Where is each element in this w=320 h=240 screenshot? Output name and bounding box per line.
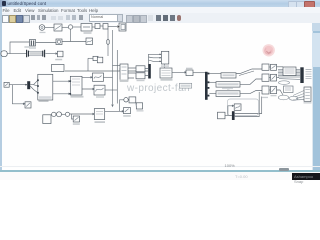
vertical wire from gain2 with goto tag	[107, 29, 109, 56]
fan wires blob to subsystem inputs	[30, 80, 38, 93]
selector block 48	[162, 51, 169, 64]
wires demux29 to gains	[128, 68, 136, 78]
minimize button	[288, 1, 297, 8]
wire col1 to col2 row2	[269, 77, 271, 79]
wire block32 to gain36	[172, 71, 186, 73]
branch to small rect A	[72, 114, 74, 119]
wire circle block to scope1	[62, 41, 86, 43]
wire controller to gain1	[92, 26, 95, 28]
vertical from mini cluster down	[87, 58, 89, 71]
transport delay two-bar block	[30, 40, 36, 47]
mux block top	[108, 23, 126, 31]
wire subsystem out1 to machine block	[53, 80, 71, 82]
wire subsystem out2 to machine block	[53, 93, 71, 95]
right col1 block1	[262, 64, 269, 70]
small terminator block lower left	[25, 102, 31, 108]
pipe label	[24, 46, 29, 47]
label under stacked gains	[137, 80, 145, 81]
wire gain1 to gain2	[100, 25, 103, 27]
wire plain rect to small bus bar	[225, 114, 232, 116]
label under right scope	[304, 102, 312, 103]
measurement block 32	[160, 68, 172, 78]
left window border	[0, 7, 2, 177]
wire machine to scope26	[82, 88, 94, 90]
vertical wire from demux bottom	[116, 50, 118, 104]
bottom rect B	[129, 97, 136, 103]
wire col2 row1 to ribbon	[277, 66, 284, 68]
wire A out up to col1 block1	[236, 69, 262, 74]
gain block G2	[103, 24, 108, 30]
title text	[8, 1, 47, 6]
tiny plus label between B and C	[227, 88, 230, 89]
wire into demux29 top	[113, 65, 121, 67]
wire col2 row2 to ellipse1	[277, 77, 280, 79]
riser from distribution to block29	[119, 68, 121, 71]
wire port to pipe	[7, 53, 26, 55]
long block B	[216, 82, 240, 87]
label under col2 row3	[271, 95, 277, 96]
vscroll thumb	[312, 33, 320, 67]
small bus bar bottom	[232, 111, 235, 120]
bottom plain rect	[218, 112, 226, 119]
horizontal distribution wire y71	[65, 70, 148, 72]
right col1 block2	[262, 74, 269, 81]
hscroll thumb	[279, 168, 290, 172]
wire sum to controller	[73, 26, 81, 28]
plant label	[95, 121, 106, 123]
status ready text	[235, 174, 248, 179]
transmission pipe block	[27, 50, 45, 57]
small block with sum lower left	[43, 112, 56, 123]
wire elbow to two-bar block	[10, 42, 30, 54]
right scope tall block	[304, 87, 311, 101]
ellipse label 3	[289, 96, 298, 100]
wire scope2 out	[105, 89, 117, 91]
wire selector to block32	[164, 64, 166, 68]
horizontal scrollbar line	[0, 170, 320, 173]
system icon	[2, 1, 7, 6]
bottom sum circle	[65, 112, 69, 116]
mux dark bar	[300, 67, 303, 83]
bottom cluster circle source	[57, 112, 62, 117]
wire sum3 to rect B	[127, 99, 130, 101]
load block label	[55, 59, 62, 61]
mux output label text	[306, 70, 312, 79]
big subsystem block	[37, 74, 53, 100]
wire into mini cluster	[88, 57, 93, 59]
wire pipe to small load block	[45, 53, 57, 55]
block32 label	[161, 79, 173, 81]
wire B out to col1 block2	[240, 79, 262, 84]
wire col1 to col2 row3	[269, 89, 271, 91]
center plant square	[94, 109, 104, 120]
vscroll top button	[312, 23, 320, 31]
close button	[304, 1, 315, 9]
bus creator bar	[148, 64, 151, 79]
rect C label	[123, 115, 131, 117]
sum junction S1	[68, 25, 72, 29]
toolbar	[0, 13, 320, 24]
vertical wire down right B	[235, 97, 262, 114]
circle source block	[56, 39, 62, 45]
wire col2 row3 to ellipse2	[277, 90, 284, 95]
long vertical wire center	[112, 30, 114, 107]
maximize button	[296, 1, 305, 8]
fan wires to block48	[149, 54, 161, 61]
scope block 25	[93, 73, 104, 81]
ribbon label box	[283, 67, 296, 76]
wire col1 to col2 row1	[269, 66, 271, 68]
right col1 block3	[262, 86, 269, 94]
wire bus to long block A	[209, 73, 221, 75]
saturation block	[54, 24, 62, 31]
label under right columns	[262, 97, 268, 98]
gain36 label	[186, 68, 193, 69]
canvas	[0, 23, 320, 168]
input source small block	[4, 82, 9, 87]
wire bus to long block B	[209, 81, 216, 83]
right col2 block1	[271, 64, 277, 70]
controller block	[81, 24, 92, 32]
wire plant out straight	[120, 110, 124, 112]
wire bus to long block C	[209, 93, 216, 95]
vertical scrollbar	[312, 23, 320, 170]
wire source to bus blob	[9, 84, 27, 86]
powergui box	[179, 83, 191, 88]
wires ellipse2 to scope right	[293, 91, 304, 101]
dark caption overlay	[292, 173, 320, 180]
bottom icon block	[234, 104, 241, 110]
bus ribbon lines	[278, 70, 300, 80]
pink logo circle	[263, 44, 275, 56]
dark caption text	[294, 174, 320, 184]
wire saturation to sum	[62, 26, 68, 28]
long block C	[216, 91, 240, 97]
wire plant out with branches	[105, 100, 124, 112]
demux29 label	[120, 80, 129, 82]
menu bar	[0, 7, 320, 13]
small rect A bottom	[73, 116, 79, 122]
clock source block	[39, 25, 45, 31]
right col2 block3	[271, 86, 277, 93]
fan arrowheads	[160, 54, 162, 63]
wire circle1 to sum2	[62, 113, 66, 115]
elbow wire into icon block	[228, 105, 234, 115]
long block A	[221, 73, 236, 78]
wire A out second diagonal	[239, 71, 254, 76]
wire machine to scope25	[82, 76, 92, 78]
rect A label	[73, 123, 80, 125]
vertical wire under sum	[70, 29, 72, 41]
measurement rect lower	[284, 86, 294, 93]
label under bottom rect B2	[137, 110, 144, 111]
annotation rounded box	[228, 99, 259, 116]
wire sum2 to center square	[70, 113, 95, 115]
right col2 block2	[271, 74, 277, 81]
main bus bar 38	[205, 72, 209, 100]
gain block G1	[95, 24, 100, 29]
vertical drop from source wire	[12, 85, 24, 105]
label under two-bar block	[29, 47, 36, 48]
bottom rect B2	[136, 103, 143, 109]
label under selector48	[161, 65, 169, 66]
label under long block B	[222, 88, 233, 89]
wire gain36 to bus bar 38	[193, 72, 205, 74]
label under clock	[40, 32, 46, 33]
ellipse label 2	[278, 95, 288, 100]
wire clock to saturation	[45, 27, 54, 29]
status area	[0, 172, 320, 180]
label under scope2	[96, 96, 104, 97]
stacked gain blocks	[136, 66, 145, 79]
machine label	[71, 96, 84, 98]
wire scope1 out	[104, 76, 113, 78]
bottom sum circle 3	[124, 98, 128, 102]
gain block 36	[186, 70, 193, 76]
controller label	[84, 32, 92, 34]
title bar	[0, 0, 320, 7]
machine tall block	[70, 76, 82, 95]
watermark	[127, 83, 190, 94]
small block above big subsystem	[52, 65, 65, 72]
bottom rect C	[124, 108, 131, 114]
label above terminator	[39, 101, 49, 103]
demux block 29	[120, 64, 128, 81]
status top border	[0, 165, 320, 168]
rounded input port block	[1, 51, 7, 57]
bus selector blob	[26, 81, 31, 89]
wires gains to bus creator	[145, 69, 148, 76]
scope block 26	[94, 85, 105, 95]
scope block small	[86, 38, 93, 45]
wire C out to col1 block3	[240, 91, 262, 94]
riser bus creator to selector48	[148, 54, 150, 64]
small load block	[57, 51, 63, 57]
upper mini cluster pair of rects	[93, 56, 103, 63]
status zoom text	[225, 163, 235, 168]
wire two-bar to circle block	[36, 42, 57, 44]
vertical wire down right A	[235, 92, 259, 117]
ellipse label 1	[279, 81, 290, 85]
